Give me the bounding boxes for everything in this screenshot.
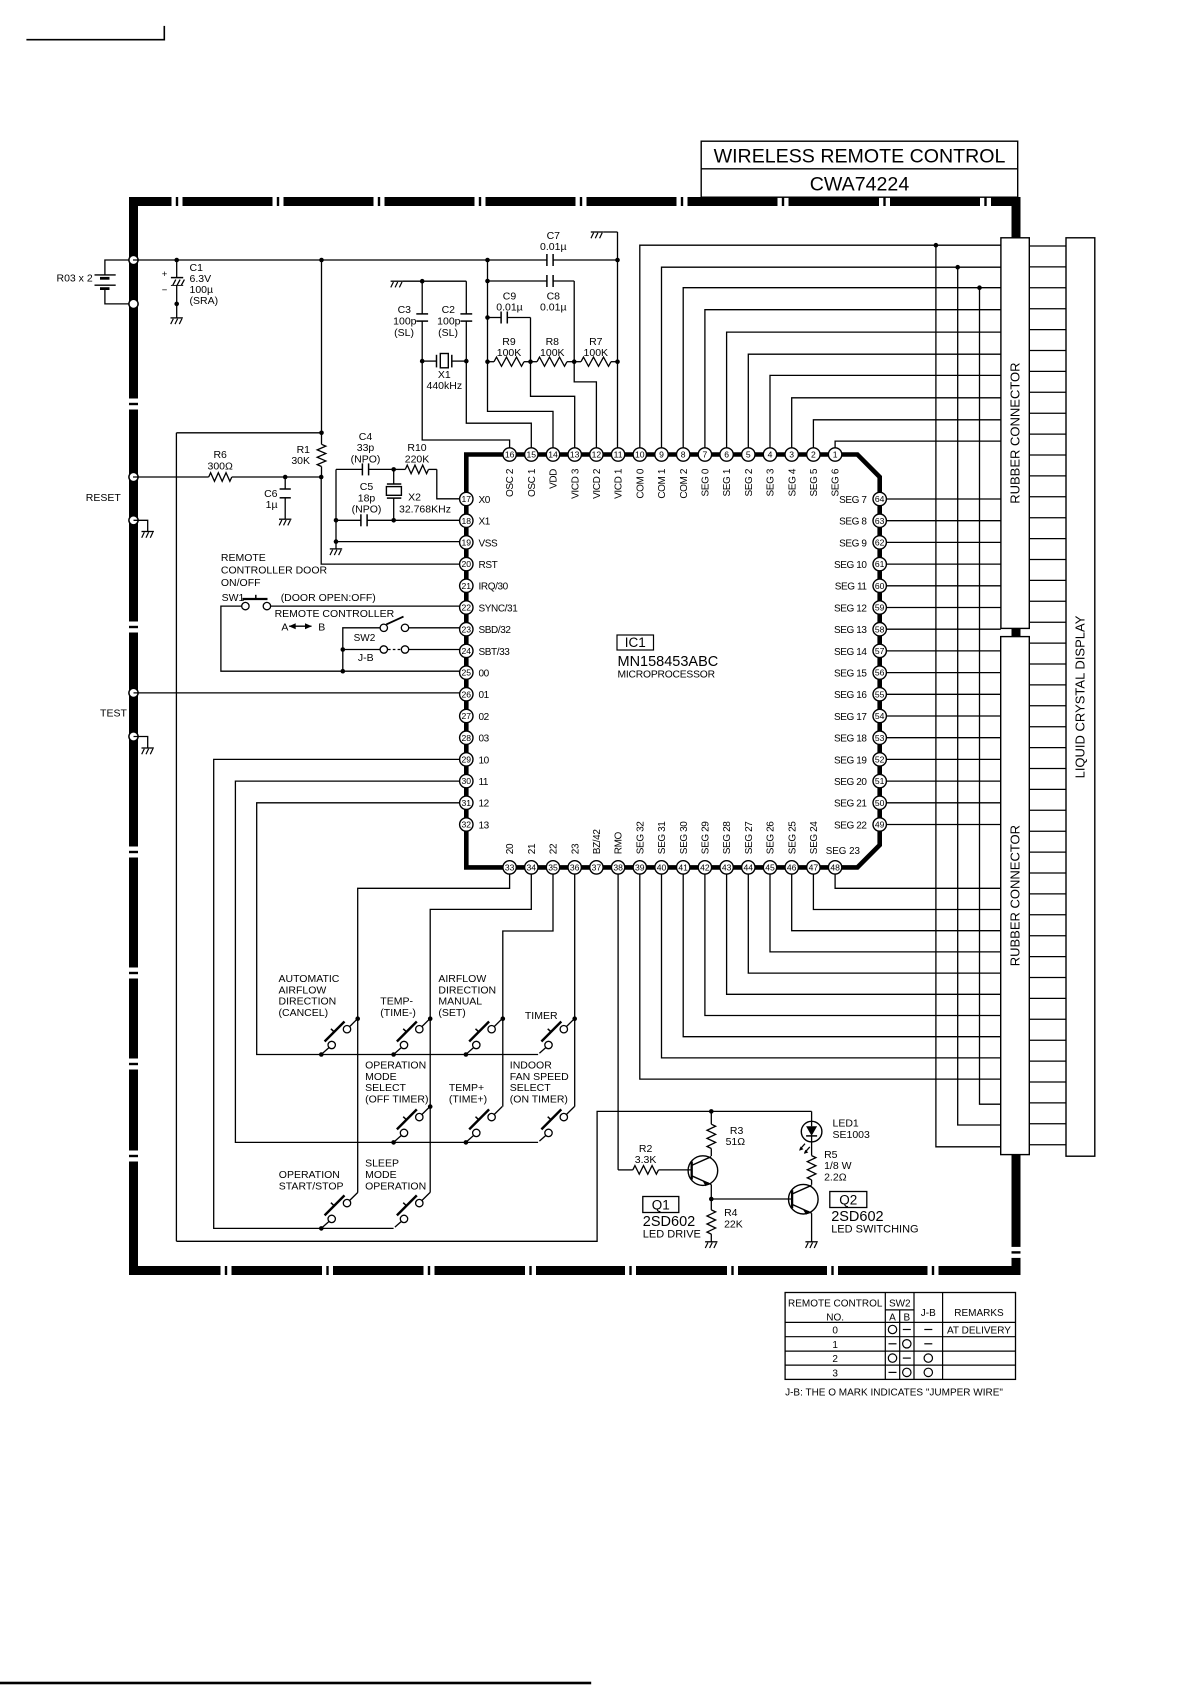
wire C4 row	[336, 467, 405, 472]
svg-text:FAN SPEED: FAN SPEED	[510, 1071, 569, 1083]
switch sleep mode operation	[395, 1193, 430, 1228]
label remote controller A B	[275, 608, 395, 633]
wire X1 right to pin15 OSC1	[466, 361, 531, 448]
wire SW1 right to pin22	[271, 605, 460, 607]
pin 37 BZ/42	[590, 829, 603, 874]
svg-text:X2: X2	[408, 492, 421, 504]
svg-text:WIRELESS REMOTE CONTROL: WIRELESS REMOTE CONTROL	[714, 146, 1006, 168]
label automatic airflow direction cancel	[279, 973, 340, 1019]
wire SEG 2 pin5 to connector	[748, 354, 1001, 448]
svg-text:0.01µ: 0.01µ	[496, 302, 523, 314]
wire SEG 7 to connector	[886, 498, 1000, 500]
svg-text:35: 35	[548, 863, 558, 873]
wire SEG 21 to connector	[886, 802, 1000, 804]
svg-text:8: 8	[681, 450, 686, 460]
svg-text:R7: R7	[589, 336, 603, 348]
capacitor C6 1u	[264, 477, 291, 519]
svg-text:10: 10	[479, 755, 490, 766]
wire SEG 20 to connector	[886, 780, 1000, 782]
svg-text:SYNC/31: SYNC/31	[479, 603, 519, 614]
pin 51 SEG 20	[834, 774, 886, 788]
svg-text:33: 33	[505, 863, 515, 873]
svg-text:1: 1	[832, 1340, 838, 1351]
wire SEG 30 pin41 to connector	[683, 874, 1001, 1037]
svg-text:28: 28	[462, 733, 472, 743]
svg-text:SEG 14: SEG 14	[834, 647, 867, 658]
svg-text:100K: 100K	[584, 347, 609, 359]
svg-text:20: 20	[462, 559, 472, 569]
svg-text:TEST: TEST	[100, 708, 127, 720]
svg-text:0: 0	[832, 1326, 838, 1337]
svg-text:18: 18	[462, 516, 472, 526]
wire SEG 3 pin4 to connector	[770, 375, 1001, 447]
wire SEG 17 to connector	[886, 715, 1000, 717]
svg-text:27: 27	[462, 711, 472, 721]
svg-text:VICD 3: VICD 3	[570, 468, 581, 499]
svg-text:300Ω: 300Ω	[208, 460, 234, 472]
pin 2 SEG 5	[807, 448, 820, 497]
svg-text:SEG 8: SEG 8	[839, 517, 867, 528]
pin 40 SEG 31	[655, 821, 668, 874]
pin 42 SEG 29	[698, 821, 711, 874]
wire SEG 12 to connector	[886, 607, 1000, 609]
title box WIRELESS REMOTE CONTROL / CWA74224	[701, 141, 1018, 197]
svg-text:AIRFLOW: AIRFLOW	[438, 973, 486, 985]
pin 57 SEG 14	[834, 644, 886, 658]
pin 43 SEG 28	[720, 821, 733, 874]
wire SEG 27 pin44 to connector	[748, 874, 1000, 973]
svg-text:SEG 12: SEG 12	[834, 603, 867, 614]
pin 55 SEG 16	[834, 688, 886, 702]
liquid crystal display box	[1066, 238, 1095, 1156]
svg-text:22: 22	[462, 603, 472, 613]
svg-text:SEG 23: SEG 23	[826, 846, 861, 857]
svg-text:47: 47	[809, 863, 819, 873]
svg-text:SEG 32: SEG 32	[635, 821, 646, 854]
wire VDD feeder bottom run	[176, 1111, 811, 1241]
svg-text:SEG 17: SEG 17	[834, 712, 867, 723]
capacitor C3	[393, 281, 428, 361]
svg-text:(NPO): (NPO)	[351, 453, 381, 465]
switch indoor fan speed select	[539, 1107, 574, 1142]
svg-text:63: 63	[875, 516, 885, 526]
pin 50 SEG 21	[834, 796, 886, 810]
svg-text:49: 49	[875, 820, 885, 830]
wire strobe 22 pin35 column	[501, 874, 554, 1107]
svg-text:B: B	[903, 1312, 910, 1323]
pin 3 SEG 4	[785, 448, 798, 497]
jumper J-B	[358, 646, 409, 664]
svg-text:23: 23	[462, 624, 472, 634]
pin 12 VICD 2	[590, 448, 603, 499]
svg-text:5: 5	[746, 450, 751, 460]
svg-text:SEG 30: SEG 30	[679, 821, 690, 854]
rubber connector upper box	[1001, 238, 1029, 629]
svg-text:RST: RST	[479, 560, 498, 571]
svg-text:AIRFLOW: AIRFLOW	[279, 984, 327, 996]
label Q1 2SD602 LED DRIVE	[643, 1197, 701, 1241]
svg-text:Q1: Q1	[652, 1198, 670, 1213]
svg-text:B: B	[318, 622, 325, 634]
svg-text:55: 55	[875, 689, 885, 699]
svg-text:00: 00	[479, 669, 490, 680]
pin 35 22	[546, 843, 559, 874]
svg-text:R10: R10	[407, 442, 426, 454]
svg-text:22K: 22K	[724, 1218, 743, 1230]
wire SEG 1 pin6 to connector	[727, 332, 1001, 448]
svg-text:11: 11	[614, 450, 623, 460]
pin 58 SEG 13	[834, 623, 886, 637]
svg-text:CWA74224: CWA74224	[810, 174, 910, 196]
svg-text:R1: R1	[297, 444, 311, 456]
label Q2 2SD602 LED SWITCHING	[830, 1192, 919, 1236]
svg-text:OSC 1: OSC 1	[527, 468, 538, 497]
resistor R9 100K	[485, 336, 530, 366]
svg-text:51: 51	[875, 776, 885, 786]
svg-text:9: 9	[659, 450, 664, 460]
wire SEG 4 pin3 to connector	[792, 398, 1001, 448]
svg-text:Q2: Q2	[839, 1193, 857, 1208]
node ground stub below TEST	[129, 732, 138, 741]
wire VSS to pin19	[334, 469, 460, 549]
svg-text:COM 0: COM 0	[635, 468, 646, 499]
svg-text:DIRECTION: DIRECTION	[438, 984, 496, 996]
label airflow direction manual set	[438, 973, 496, 1019]
wire RST to pin20	[321, 477, 459, 564]
wire SEG 15 to connector	[886, 672, 1000, 674]
svg-text:RUBBER CONNECTOR: RUBBER CONNECTOR	[1007, 825, 1022, 966]
node RESET on border	[129, 472, 138, 481]
switch operation start stop	[319, 1193, 358, 1231]
svg-text:R5: R5	[824, 1149, 838, 1161]
svg-text:2: 2	[832, 1354, 838, 1365]
svg-text:SEG 10: SEG 10	[834, 560, 867, 571]
wire long VDD feeder down left side	[175, 433, 177, 1242]
wire SW2 right to pin23	[409, 627, 460, 629]
svg-text:17: 17	[462, 494, 472, 504]
svg-text:(CANCEL): (CANCEL)	[279, 1007, 329, 1019]
pin 1 SEG 6	[828, 448, 841, 497]
wire SEG 8 to connector	[886, 520, 1000, 522]
wire SEG 6 pin1 to connector	[835, 441, 1001, 448]
wire SEG 19 to connector	[886, 758, 1000, 760]
svg-text:01: 01	[479, 690, 490, 701]
resistor R10 220K	[405, 442, 437, 474]
svg-text:44: 44	[744, 863, 754, 873]
svg-text:38: 38	[613, 863, 623, 873]
resistor R5 2.2	[807, 1142, 851, 1185]
svg-text:SEG 15: SEG 15	[834, 669, 867, 680]
wire SEG 16 to connector	[886, 693, 1000, 695]
svg-text:25: 25	[462, 668, 472, 678]
svg-text:46: 46	[787, 863, 797, 873]
svg-text:IC1: IC1	[625, 635, 646, 650]
svg-text:X1: X1	[438, 369, 451, 381]
svg-text:SEG 13: SEG 13	[834, 625, 867, 636]
svg-text:32.768KHz: 32.768KHz	[399, 503, 451, 515]
svg-text:43: 43	[722, 863, 732, 873]
resistor R3 51	[707, 1109, 745, 1156]
label remote controller door	[221, 552, 328, 589]
pin 45 SEG 26	[763, 821, 776, 874]
svg-text:1: 1	[833, 450, 838, 460]
wire strobe 23 pin36 column	[572, 874, 577, 1107]
wire SEG 5 pin2 to connector	[813, 420, 1001, 448]
svg-text:1µ: 1µ	[266, 499, 278, 511]
wire X1 left to pin16 OSC2	[422, 361, 509, 448]
svg-text:100K: 100K	[497, 347, 522, 359]
border frame	[129, 197, 1022, 1276]
svg-text:56: 56	[875, 668, 885, 678]
wire SEG 29 pin42 to connector	[705, 874, 1001, 1015]
svg-text:31: 31	[462, 798, 472, 808]
svg-text:33p: 33p	[357, 442, 375, 454]
wires rubber connector to LCD	[1029, 246, 1066, 1145]
wire R1 top to long VDD feeder	[176, 432, 321, 434]
pin 31 12	[460, 796, 490, 810]
svg-text:C4: C4	[359, 431, 373, 443]
svg-text:14: 14	[548, 450, 558, 460]
ground below RESET stub	[142, 532, 154, 538]
svg-text:CONTROLLER DOOR: CONTROLLER DOOR	[221, 565, 328, 577]
pin 19 VSS	[460, 536, 498, 550]
svg-text:−: −	[162, 285, 168, 296]
svg-text:RESET: RESET	[86, 492, 122, 504]
svg-text:30K: 30K	[291, 455, 310, 467]
pin 56 SEG 15	[834, 666, 886, 680]
svg-text:SEG 20: SEG 20	[834, 777, 867, 788]
svg-text:57: 57	[875, 646, 885, 656]
node battery minus on border	[129, 299, 138, 308]
pin 21 IRQ/30	[460, 579, 509, 593]
resistor R1 30K	[291, 431, 325, 478]
svg-text:SEG 18: SEG 18	[834, 734, 867, 745]
wire R1 top to VDD rail	[321, 260, 323, 433]
svg-text:53: 53	[875, 733, 885, 743]
wire SEG 10 to connector	[886, 563, 1000, 565]
svg-text:SEG 11: SEG 11	[835, 582, 868, 593]
ground at C7 right top	[591, 232, 618, 238]
svg-text:R3: R3	[730, 1125, 744, 1137]
svg-text:SBD/32: SBD/32	[479, 625, 512, 636]
svg-text:60: 60	[875, 581, 885, 591]
switch airflow direction manual	[464, 1019, 503, 1057]
svg-text:SEG 5: SEG 5	[809, 468, 820, 496]
svg-text:SBT/33: SBT/33	[479, 647, 511, 658]
svg-text:02: 02	[479, 712, 490, 723]
svg-text:18p: 18p	[358, 492, 376, 504]
pin 17 X0	[460, 492, 491, 506]
label temp- time-	[380, 996, 416, 1019]
pin 34 21	[525, 843, 538, 874]
wire SEG 11 to connector	[886, 585, 1000, 587]
svg-text:R2: R2	[639, 1143, 653, 1155]
switch automatic airflow direction	[319, 1019, 358, 1057]
pin 39 SEG 32	[633, 821, 646, 874]
svg-text:SEG 1: SEG 1	[722, 468, 733, 496]
svg-text:COM 2: COM 2	[679, 468, 690, 499]
svg-text:X0: X0	[479, 495, 491, 506]
svg-text:SEG 21: SEG 21	[834, 799, 867, 810]
label operation mode select off timer	[365, 1060, 428, 1106]
label sleep mode operation	[365, 1157, 426, 1192]
wire osc top	[420, 279, 466, 284]
capacitor C8	[540, 275, 567, 314]
pin 15 OSC 1	[525, 448, 538, 497]
pin 52 SEG 19	[834, 753, 886, 767]
resistor R6 300	[133, 449, 324, 481]
svg-text:(SL): (SL)	[394, 327, 414, 339]
svg-text:37: 37	[592, 863, 602, 873]
svg-text:30: 30	[462, 776, 472, 786]
page bottom edge mark	[0, 1682, 591, 1685]
svg-text:AT DELIVERY: AT DELIVERY	[947, 1326, 1011, 1337]
label indoor fan speed select on timer	[510, 1060, 569, 1106]
svg-text:36: 36	[570, 863, 580, 873]
svg-text:SEG 26: SEG 26	[766, 821, 777, 854]
svg-text:58: 58	[875, 624, 885, 634]
svg-text:64: 64	[875, 494, 885, 504]
svg-text:21: 21	[462, 581, 472, 591]
svg-text:C3: C3	[398, 304, 412, 316]
pin 48 SEG 23	[828, 861, 841, 874]
svg-text:SW1: SW1	[222, 592, 245, 604]
wire C9 right to pin13 VICD3	[528, 318, 575, 448]
svg-text:0.01µ: 0.01µ	[540, 241, 567, 253]
pin 4 SEG 3	[763, 448, 776, 497]
svg-text:OPERATION: OPERATION	[365, 1180, 426, 1192]
svg-text:LED SWITCHING: LED SWITCHING	[831, 1224, 918, 1236]
wire COM 1 pin9 to connector	[662, 267, 1001, 448]
svg-text:REMOTE: REMOTE	[221, 552, 266, 564]
svg-text:(NPO): (NPO)	[352, 504, 382, 516]
pin 62 SEG 9	[839, 536, 886, 550]
svg-text:03: 03	[479, 734, 490, 745]
svg-text:62: 62	[875, 538, 885, 548]
svg-text:C2: C2	[442, 304, 456, 316]
svg-text:SEG 19: SEG 19	[834, 755, 867, 766]
svg-text:SELECT: SELECT	[510, 1082, 551, 1094]
label operation start stop	[279, 1169, 344, 1193]
pin 9 COM 1	[655, 448, 668, 499]
node ground stub below RESET	[129, 516, 138, 525]
wire RMO pin38 to R2	[617, 874, 619, 1170]
svg-text:SLEEP: SLEEP	[365, 1157, 399, 1169]
svg-text:(SRA): (SRA)	[190, 295, 219, 307]
svg-text:TEMP-: TEMP-	[380, 996, 413, 1008]
switch temp+ time+	[464, 1107, 503, 1145]
svg-text:21: 21	[527, 843, 538, 854]
pin 16 OSC 2	[503, 448, 516, 497]
wire SEG 22 to connector	[886, 824, 1000, 826]
pin 49 SEG 22	[834, 818, 886, 832]
svg-text:X1: X1	[479, 517, 491, 528]
svg-text:41: 41	[678, 863, 688, 873]
capacitor C5 18p	[352, 481, 382, 526]
svg-text:C6: C6	[264, 488, 278, 500]
svg-text:SEG 3: SEG 3	[766, 468, 777, 496]
label temp+ time+	[449, 1082, 487, 1105]
ground stub wire 2	[134, 737, 148, 749]
svg-text:MN158453ABC: MN158453ABC	[618, 654, 719, 670]
svg-text:VICD 2: VICD 2	[592, 468, 603, 499]
svg-text:4: 4	[768, 450, 773, 460]
svg-text:24: 24	[462, 646, 472, 656]
svg-text:61: 61	[875, 559, 885, 569]
ground at VSS	[330, 549, 342, 555]
op-amp IC1 outline	[466, 455, 879, 868]
svg-text:59: 59	[875, 603, 885, 613]
svg-text:MODE: MODE	[365, 1071, 397, 1083]
svg-text:C5: C5	[360, 481, 374, 493]
svg-text:VICD 1: VICD 1	[614, 468, 625, 499]
svg-text:20: 20	[505, 843, 516, 854]
svg-text:16: 16	[505, 450, 515, 460]
svg-text:50: 50	[875, 798, 885, 808]
node TEST on border	[129, 688, 138, 697]
svg-text:11: 11	[479, 777, 489, 788]
pin 28 03	[460, 731, 490, 745]
switch timer	[539, 1019, 574, 1054]
pin 14 VDD	[546, 448, 559, 489]
pin 54 SEG 17	[834, 709, 886, 723]
capacitor C7	[540, 230, 567, 266]
wire SEG 13 to connector	[886, 628, 1000, 630]
svg-text:+: +	[162, 269, 168, 280]
svg-text:MANUAL: MANUAL	[438, 996, 482, 1008]
svg-text:54: 54	[875, 711, 885, 721]
svg-text:SEG 31: SEG 31	[657, 821, 668, 854]
crystal X2 32.768KHz	[386, 469, 451, 520]
svg-text:40: 40	[657, 863, 667, 873]
svg-text:A: A	[889, 1312, 896, 1323]
svg-text:7: 7	[703, 450, 708, 460]
wire SEG 0 pin7 to connector	[705, 310, 1001, 448]
resistor R7 100K	[574, 336, 617, 366]
resistor R2 3.3K	[618, 1143, 692, 1174]
svg-text:(TIME+): (TIME+)	[449, 1093, 487, 1105]
wire TEST to pin26	[134, 692, 460, 694]
switch operation mode select	[391, 1107, 430, 1145]
svg-text:42: 42	[700, 863, 710, 873]
capacitor C9	[496, 291, 523, 324]
wire row 12 pin31 to key row 1	[257, 803, 538, 1055]
svg-text:SEG 27: SEG 27	[744, 821, 755, 854]
wire row 10 pin29 to key row 3	[214, 759, 460, 1228]
transistor Q2	[789, 1184, 819, 1214]
label IC1	[617, 635, 718, 681]
svg-text:22: 22	[549, 843, 560, 854]
ground at C3 top-left	[391, 281, 423, 287]
svg-text:(SL): (SL)	[438, 327, 458, 339]
svg-text:(DOOR OPEN:OFF): (DOOR OPEN:OFF)	[281, 592, 376, 604]
svg-text:48: 48	[830, 863, 840, 873]
svg-text:15: 15	[527, 450, 537, 460]
switch SW1	[222, 592, 271, 610]
pin 10 COM 0	[633, 448, 646, 499]
wire SEG 26 pin45 to connector	[770, 874, 1001, 952]
transistor Q1	[688, 1156, 718, 1186]
svg-text:SEG 25: SEG 25	[787, 821, 798, 854]
svg-text:SEG 24: SEG 24	[809, 821, 820, 854]
wire SEG 28 pin43 to connector	[727, 874, 1001, 994]
svg-text:39: 39	[635, 863, 645, 873]
wire Q1 emitter junction	[709, 1185, 792, 1202]
svg-text:MICROPROCESSOR: MICROPROCESSOR	[618, 670, 715, 681]
capacitor C1	[162, 258, 218, 318]
svg-text:RMO: RMO	[614, 831, 625, 854]
wire COM 1 vertical to lower connector	[955, 265, 1000, 1125]
